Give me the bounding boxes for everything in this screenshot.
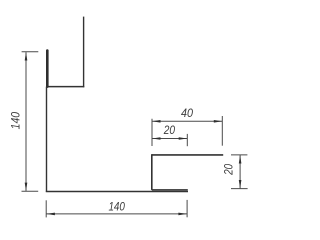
profile right part top horizontal: [152, 154, 223, 156]
dimension 140 bottom: arrow left: [46, 213, 55, 216]
svg-text:20: 20: [163, 123, 175, 137]
dimension 140 bottom: dimension line: [46, 213, 187, 215]
profile main leg upper doubled: [46, 51, 49, 87]
dimension 20 top: arrow right: [179, 137, 188, 140]
svg-text:20: 20: [222, 164, 236, 176]
dimension 40: arrow left: [152, 120, 161, 123]
svg-text:140: 140: [108, 200, 125, 214]
dimension 140 left: extension tick top: [22, 51, 39, 53]
dimension 140 left: extension tick bottom: [22, 190, 39, 192]
dimension 140 bottom: extension line right: [186, 200, 188, 217]
profile right part bottom return: [152, 189, 188, 191]
dimension 20 right: value label: [222, 164, 236, 176]
svg-text:140: 140: [9, 112, 23, 130]
profile main leg lower: [46, 87, 48, 192]
dimension 20 right: arrow up: [239, 155, 242, 164]
dimension 40: extension line right: [221, 116, 223, 146]
dimension 20 top: extension line right: [186, 134, 188, 146]
dimension 140 bottom: extension line left: [45, 200, 47, 217]
dimension 140 left: dimension line: [25, 52, 27, 191]
dimension 40: value label: [181, 106, 193, 120]
dimension 140 left: arrow up: [25, 52, 28, 61]
dimension 140 bottom: arrow right: [178, 213, 187, 216]
dimension 20 top: value label: [163, 123, 175, 137]
profile top fold horizontal: [46, 86, 84, 88]
dimension 140 bottom: value label: [108, 200, 125, 214]
dimension 40: arrow right: [214, 120, 223, 123]
dimension 20 top: dimension line: [152, 138, 187, 140]
dimension 20 right: extension tick bottom: [231, 188, 248, 190]
dimension 20 right: arrow down: [239, 180, 242, 189]
dimension 40: dimension line: [152, 120, 222, 122]
dimension 140 left: value label: [9, 112, 23, 130]
profile top flange vertical: [83, 17, 85, 88]
dimension 20 top: arrow left: [152, 137, 161, 140]
profile bottom horizontal: [46, 191, 188, 193]
dimension 40: extension line left shared: [151, 119, 153, 146]
dimension 20 right: dimension line: [239, 155, 241, 188]
svg-text:40: 40: [181, 106, 193, 120]
profile right part vertical: [151, 154, 153, 190]
dimension 140 left: arrow down: [25, 183, 28, 192]
dimension 20 right: extension tick top: [231, 154, 247, 156]
